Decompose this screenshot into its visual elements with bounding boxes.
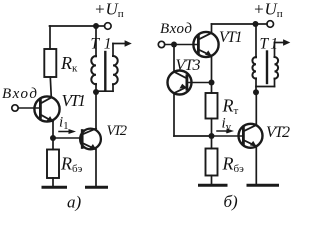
- svg-text:Вход: Вход: [2, 86, 37, 102]
- svg-text:а): а): [67, 193, 82, 212]
- svg-text:VT3: VT3: [176, 57, 201, 74]
- svg-text:VT2: VT2: [266, 124, 290, 141]
- svg-text:VT1: VT1: [62, 91, 87, 110]
- svg-text:VT2: VT2: [107, 123, 128, 139]
- svg-text:б): б): [224, 192, 239, 211]
- svg-text:VT1: VT1: [219, 29, 243, 46]
- svg-text:Вход: Вход: [160, 21, 192, 37]
